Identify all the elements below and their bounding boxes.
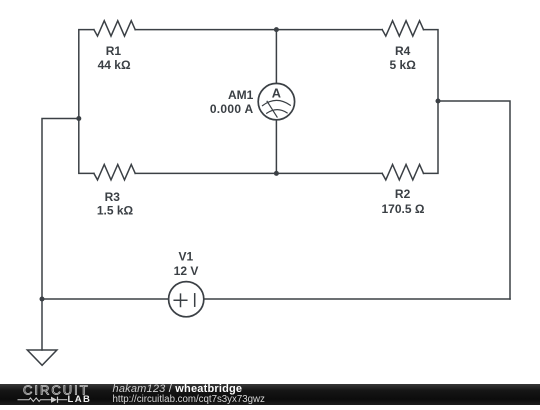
voltage source V1 symbol <box>169 282 204 317</box>
footer bar <box>0 384 540 405</box>
resistor R1 <box>94 21 135 36</box>
node: junction bottom rail / ground <box>40 297 45 302</box>
svg-text:R1: R1 <box>106 44 122 58</box>
wire: left tap from node A to outer rail <box>42 119 79 300</box>
wire: bridge left side (top stub, left vertical, bottom stub) <box>79 30 94 174</box>
svg-text:R4: R4 <box>395 44 411 58</box>
wire: ammeter bottom lead <box>275 120 277 174</box>
resistor R2 <box>382 165 423 180</box>
svg-text:V1: V1 <box>178 250 193 264</box>
node: junction bottom bus / ammeter <box>274 171 279 176</box>
svg-text:R2: R2 <box>395 187 411 201</box>
node: junction right bridge tap <box>436 99 441 104</box>
wire: bridge right side (top stub, right vertical, bottom stub) <box>424 30 439 174</box>
svg-text:12 V: 12 V <box>174 264 199 278</box>
wire: top bus between R1 and R4 <box>135 29 382 31</box>
ammeter AM1 symbol <box>258 83 294 119</box>
wire: ground stem <box>41 299 43 350</box>
svg-text:R3: R3 <box>105 190 121 204</box>
footer title: hakam123 / wheatbridge <box>113 384 243 394</box>
resistor R4 <box>382 21 423 36</box>
svg-text:5 kΩ: 5 kΩ <box>390 58 417 72</box>
footer url <box>113 395 265 405</box>
wire: ammeter top lead <box>275 30 277 84</box>
node: junction top bus / ammeter <box>274 27 279 32</box>
wire: bottom rail right of V1 <box>204 298 510 300</box>
ground <box>27 350 57 365</box>
wire: right tap from node B to outer rail <box>438 101 510 299</box>
resistor R3 <box>94 165 135 180</box>
svg-text:A: A <box>272 86 281 101</box>
node: junction left bridge tap <box>76 116 81 121</box>
svg-text:170.5 Ω: 170.5 Ω <box>382 202 425 216</box>
CircuitLab logo <box>0 384 110 405</box>
wire: bottom rail left of V1 <box>42 298 169 300</box>
wire: bottom bus between R3 and R2 <box>135 172 382 174</box>
svg-text:AM1: AM1 <box>228 88 254 102</box>
svg-text:1.5 kΩ: 1.5 kΩ <box>97 203 134 217</box>
svg-text:0.000 A: 0.000 A <box>210 102 254 116</box>
svg-text:44 kΩ: 44 kΩ <box>98 58 131 72</box>
svg-text:LAB: LAB <box>68 394 92 405</box>
